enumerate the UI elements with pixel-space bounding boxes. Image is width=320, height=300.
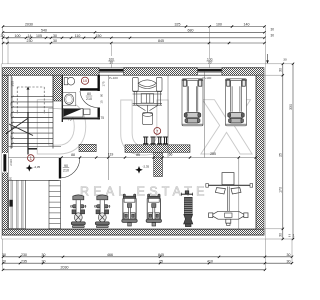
- svg-text:80: 80: [87, 92, 91, 96]
- svg-text:30: 30: [110, 61, 114, 65]
- svg-text:88: 88: [71, 153, 75, 157]
- svg-text:210: 210: [63, 168, 69, 172]
- svg-text:845: 845: [158, 253, 164, 257]
- svg-text:1: 1: [293, 234, 295, 238]
- svg-text:2030: 2030: [61, 266, 69, 270]
- svg-text:330: 330: [289, 104, 293, 110]
- svg-text:P+100: P+100: [203, 76, 212, 80]
- svg-text:170: 170: [279, 187, 283, 193]
- svg-text:466: 466: [107, 253, 113, 257]
- svg-text:14: 14: [28, 34, 32, 38]
- svg-text:230: 230: [21, 253, 27, 257]
- svg-text:680: 680: [188, 28, 194, 32]
- svg-text:30: 30: [42, 253, 46, 257]
- svg-text:119: 119: [108, 153, 114, 157]
- svg-text:30: 30: [279, 233, 283, 237]
- svg-text:2030: 2030: [25, 23, 33, 27]
- svg-text:30: 30: [53, 39, 57, 43]
- svg-text:30: 30: [283, 58, 287, 62]
- svg-text:30: 30: [271, 27, 275, 31]
- svg-text:90: 90: [100, 94, 104, 98]
- svg-text:30: 30: [42, 259, 46, 263]
- svg-text:175: 175: [101, 81, 105, 86]
- svg-text:66: 66: [169, 153, 173, 157]
- svg-text:845: 845: [158, 39, 164, 43]
- svg-text:210: 210: [86, 97, 92, 101]
- svg-text:15: 15: [100, 100, 104, 104]
- svg-text:30: 30: [287, 253, 291, 257]
- svg-text:255: 255: [210, 152, 216, 156]
- svg-text:30: 30: [271, 33, 275, 37]
- svg-text:-2,35: -2,35: [143, 165, 150, 169]
- svg-text:20: 20: [2, 259, 6, 263]
- svg-text:30: 30: [2, 253, 6, 257]
- svg-text:140: 140: [244, 23, 250, 27]
- svg-text:90: 90: [64, 164, 68, 168]
- svg-text:325: 325: [175, 23, 181, 27]
- svg-text:110: 110: [75, 34, 81, 38]
- svg-text:100: 100: [15, 34, 21, 38]
- svg-text:90: 90: [9, 177, 13, 181]
- svg-text:P+100: P+100: [109, 76, 118, 80]
- svg-text:-2,35: -2,35: [34, 165, 41, 169]
- svg-text:25: 25: [159, 259, 163, 263]
- svg-text:300: 300: [10, 81, 14, 87]
- svg-text:150: 150: [96, 34, 102, 38]
- svg-text:75: 75: [68, 118, 72, 122]
- svg-text:410: 410: [207, 259, 213, 263]
- svg-text:235: 235: [21, 259, 27, 263]
- svg-text:10: 10: [83, 78, 88, 83]
- svg-text:30: 30: [1, 34, 5, 38]
- svg-text:100: 100: [216, 23, 222, 27]
- svg-text:75: 75: [101, 116, 105, 120]
- svg-text:2410: 2410: [9, 159, 13, 166]
- svg-text:30: 30: [279, 68, 283, 72]
- svg-text:85: 85: [136, 153, 140, 157]
- svg-text:25: 25: [279, 153, 283, 157]
- svg-text:30: 30: [287, 259, 291, 263]
- svg-text:30: 30: [208, 61, 212, 65]
- svg-text:30: 30: [53, 34, 57, 38]
- svg-text:540: 540: [41, 28, 47, 32]
- svg-text:230: 230: [27, 39, 33, 43]
- svg-text:105: 105: [36, 34, 42, 38]
